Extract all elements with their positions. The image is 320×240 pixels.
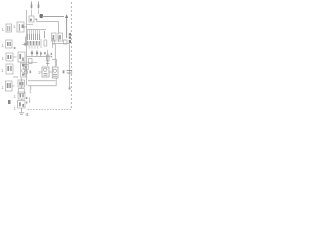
right net horizontal [52, 43, 70, 45]
wire mid horizontal with corner [36, 22, 59, 34]
meter M1 circle [44, 68, 48, 75]
left box L2 [17, 22, 24, 32]
corner wire into M2 [52, 60, 57, 67]
specks right of stack [26, 97, 27, 104]
svg-text:1: 1 [14, 106, 17, 111]
output arrow up [66, 17, 68, 38]
bottom stack box S2 [18, 99, 26, 108]
central coupler box [27, 16, 35, 24]
small component row2 right [44, 38, 55, 48]
label under junction [29, 89, 32, 94]
meter M2 box [52, 67, 58, 78]
comb row 2 bars [28, 41, 40, 46]
top arrow conductor A [31, 2, 33, 9]
speck near corner [44, 52, 46, 54]
capacitor C1 on right drop [67, 71, 72, 74]
label L6 [1, 85, 4, 90]
left box L3 [6, 40, 12, 48]
comb row 2 tails [29, 39, 41, 49]
terminal blob lower left [8, 100, 11, 104]
label L5 [1, 68, 4, 73]
left box L1 [6, 24, 12, 32]
top arrow conductor B [38, 2, 40, 9]
dashed enclosure bottom border [28, 108, 72, 110]
left box L5 [6, 64, 13, 74]
svg-text:1: 1 [13, 24, 16, 29]
label left of C1 [63, 70, 65, 73]
short arrow on bus upper [23, 37, 26, 46]
svg-text:1: 1 [2, 56, 5, 61]
svg-text:1: 1 [38, 70, 41, 75]
svg-text:1: 1 [14, 94, 17, 99]
svg-text:1: 1 [29, 89, 32, 94]
label S1 [14, 94, 17, 99]
M2 vertical feed [54, 44, 56, 67]
M2 bottom lead corner [28, 78, 56, 86]
L2 stub to bus [24, 26, 27, 28]
M1 stubs [40, 71, 52, 73]
comb row 1 lower ticks [28, 31, 45, 40]
relay box K2 [58, 33, 63, 41]
end blob of right drop [69, 88, 71, 90]
arrow feed wire B [38, 10, 40, 15]
label left of M1 [38, 70, 41, 75]
left box L6 [6, 81, 13, 91]
relay box K1 [52, 33, 57, 41]
label L4 [2, 56, 5, 61]
mid horizontal wire [27, 56, 51, 58]
svg-text:1: 1 [1, 68, 4, 73]
label under dashed border [27, 112, 30, 117]
small box near top right net [59, 36, 68, 44]
svg-text:1: 1 [2, 27, 5, 32]
L4 stub [13, 56, 17, 58]
junction blob on bus [24, 43, 26, 46]
comb row 1 ticks [28, 30, 40, 34]
speck below L3 [14, 47, 16, 49]
meter M2 circle [53, 69, 57, 76]
plus mark [35, 18, 38, 21]
mid wire small elements above [31, 50, 42, 57]
small box below mid wire [29, 59, 33, 64]
label 16 right of ground [26, 112, 29, 117]
arrow feed wire A [31, 10, 33, 17]
label L2 [13, 24, 16, 29]
svg-text:1: 1 [2, 43, 5, 48]
bus component (on main bus) [24, 65, 31, 75]
dashed enclosure right border [70, 2, 72, 110]
cluster right of L6 lower box [18, 78, 24, 94]
label L1 [2, 27, 5, 32]
lower pair top line [28, 80, 56, 82]
L6 stub [12, 85, 15, 87]
cluster right of L6 upper box [18, 80, 25, 87]
bottom stack box S1 [18, 92, 25, 99]
comb bus [27, 29, 47, 31]
label 16a near border [69, 33, 71, 43]
transformer blob T1 [40, 14, 44, 18]
mid box M [18, 52, 25, 62]
wire right of bus at 62 [27, 61, 37, 63]
small bar under [13, 76, 18, 78]
resistor on vertical at 47.5 [46, 50, 49, 66]
right net vertical drop [69, 44, 71, 90]
junction tick below pair [30, 86, 32, 90]
left box L4 [6, 53, 13, 61]
svg-text:1: 1 [1, 85, 4, 90]
cluster right of L5 [21, 63, 27, 77]
main vertical bus [26, 10, 28, 86]
meter M1 box [42, 67, 49, 77]
tiny label right of resistor [51, 53, 53, 57]
label L3 [2, 43, 5, 48]
label S2 [14, 106, 17, 111]
small stub lower center [29, 98, 31, 104]
wire upper horizontal [42, 16, 64, 18]
ground under stack [19, 108, 24, 115]
